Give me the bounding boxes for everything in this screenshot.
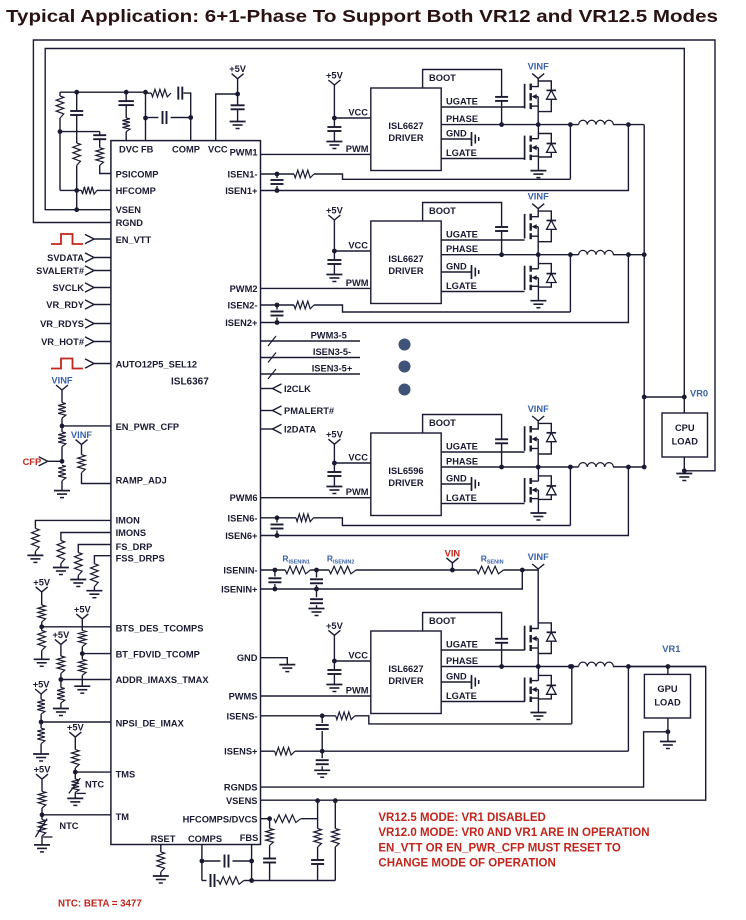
node BTS_DES_TCOMPS	[39, 624, 44, 629]
body diode lower phase 2	[538, 476, 551, 486]
ground EN_PWR_CFP divider	[54, 490, 70, 492]
PWM wire to driver U4	[261, 695, 371, 697]
ground BT divider	[74, 685, 90, 687]
svg-text:VINF: VINF	[528, 552, 549, 562]
CPU LOAD branch wire	[644, 397, 684, 413]
ISENIN- wire	[261, 569, 286, 571]
output inductor L2	[579, 250, 614, 254]
VSENS branch capacitor C10	[317, 847, 319, 860]
svg-text:RSET: RSET	[151, 834, 176, 844]
node EN_PWR_CFP	[60, 424, 65, 429]
resistor comp R2	[73, 143, 81, 165]
driver U1 VCC ground	[326, 141, 342, 143]
svg-text:+5V: +5V	[33, 680, 51, 690]
svg-text:CHANGE MODE OF OPERATION: CHANGE MODE OF OPERATION	[378, 858, 555, 870]
ISEN2- sense network	[261, 304, 278, 306]
ISEN1- sense network	[261, 173, 278, 175]
svg-text:VR12.0 MODE: VR0 AND VR1 ARE I: VR12.0 MODE: VR0 AND VR1 ARE IN OPERATIO…	[378, 827, 649, 839]
capacitor ISEN6	[276, 518, 278, 523]
+5V supply BTS divider	[36, 587, 42, 592]
capacitor ISEN1	[276, 174, 278, 178]
LGATE wire 3	[441, 503, 524, 505]
resistor BT divider lower	[81, 654, 83, 660]
svg-text:VSENS: VSENS	[226, 796, 258, 806]
VIN supply	[450, 568, 455, 573]
ground ISENIN	[309, 608, 325, 610]
svg-text:PHASE: PHASE	[446, 244, 478, 254]
svg-text:LOAD: LOAD	[654, 698, 681, 708]
output inductor L1	[579, 120, 614, 124]
bottom bus wire	[252, 880, 336, 882]
svg-text:VIN: VIN	[445, 548, 461, 558]
svg-text:LOAD: LOAD	[672, 437, 699, 447]
svg-text:ISEN1+: ISEN1+	[225, 186, 258, 196]
svg-text:VINF: VINF	[71, 430, 92, 440]
HFCOMP resistor R4	[60, 189, 82, 191]
svg-text:GND: GND	[446, 672, 467, 682]
resistor TMS upper	[74, 737, 76, 750]
svg-text:PWM2: PWM2	[230, 284, 258, 294]
capacitor ISENS b to ground	[321, 751, 323, 758]
svg-text:ISEN3-5-: ISEN3-5-	[313, 347, 351, 357]
+5V supply BT divider	[76, 614, 82, 619]
svg-text:FBS: FBS	[240, 833, 259, 843]
power MOSFET upper phase 0	[524, 84, 526, 109]
svg-text:ADDR_IMAXS_TMAX: ADDR_IMAXS_TMAX	[116, 675, 210, 685]
svg-text:LGATE: LGATE	[446, 281, 477, 291]
resistor divider EN_PWR_CFP lower	[58, 465, 66, 481]
ISENS+ wire	[261, 750, 275, 752]
phase 3 sense verticals	[569, 467, 571, 526]
svg-text:VINF: VINF	[528, 62, 549, 72]
VSENS branch resistor R11	[334, 801, 336, 829]
PWM wire to driver U3	[261, 497, 371, 499]
ISENS- to phase-4 vertical	[571, 667, 573, 724]
+5V supply ADDR divider	[55, 639, 61, 644]
body diode upper phase 0	[538, 81, 551, 90]
svg-text:VR12.5 MODE: VR1 DISABLED: VR12.5 MODE: VR1 DISABLED	[378, 812, 545, 824]
ground lower MOSFET phase 0	[530, 170, 546, 172]
svg-text:ISENIN-: ISENIN-	[223, 566, 257, 576]
capacitor ISENIN a	[274, 570, 276, 577]
driver U3 VCC wire	[334, 462, 370, 464]
capacitor ISENS a	[321, 716, 323, 723]
ISEN6- sense network	[261, 517, 278, 519]
VR1 output wire	[261, 667, 706, 801]
resistor TM upper	[41, 779, 43, 791]
VCC pin wire	[216, 94, 238, 141]
svg-text:+5V: +5V	[52, 630, 70, 640]
svg-text:SVDATA: SVDATA	[47, 253, 84, 263]
driver U3 VCC decoupling capacitor	[333, 463, 335, 472]
COMPS-FBS series resistor R7	[219, 877, 244, 885]
PHASE wire 3	[441, 466, 578, 468]
VINF supply for EN_PWR_CFP divider	[56, 385, 62, 390]
svg-text:PHASE: PHASE	[446, 457, 478, 467]
svg-text:ISL6627: ISL6627	[388, 254, 423, 264]
ground at FS_DRP	[70, 579, 86, 581]
VR0 rail	[643, 125, 645, 467]
UGATE wire 1	[441, 106, 524, 108]
GND pin driver U2	[441, 271, 471, 273]
svg-text:VCC: VCC	[348, 108, 368, 118]
RGNDS return wire	[261, 732, 668, 787]
svg-text:+5V: +5V	[74, 604, 92, 614]
svg-text:PWM6: PWM6	[230, 493, 258, 503]
svg-text:PMALERT#: PMALERT#	[284, 406, 335, 416]
BOOT net driver U2	[423, 203, 502, 227]
node BT_FDVID_TCOMP	[80, 651, 85, 656]
svg-text:+5V: +5V	[326, 621, 344, 631]
FB-COMP series capacitor C5	[177, 87, 179, 100]
ground NPSI divider	[33, 753, 49, 755]
pin I2CLK	[261, 388, 273, 390]
svg-text:FSS_DRPS: FSS_DRPS	[116, 554, 165, 564]
ground at FSS_DRPS	[86, 590, 102, 592]
svg-text:UGATE: UGATE	[446, 97, 478, 107]
bus ISEN3-5-	[261, 357, 361, 359]
svg-text:NPSI_DE_IMAX: NPSI_DE_IMAX	[116, 719, 185, 729]
svg-text:AUTO12P5_SEL12: AUTO12P5_SEL12	[116, 360, 197, 370]
svg-text:ISENS+: ISENS+	[224, 747, 258, 757]
driver U2 ISL6627 DRIVER box	[371, 221, 441, 304]
DVC series capacitor C3	[125, 92, 127, 101]
PSICOMP series capacitor C2	[99, 132, 101, 135]
body diode upper phase 2	[538, 423, 551, 432]
svg-text:PHASE: PHASE	[446, 114, 478, 124]
resistor RSET	[157, 852, 165, 872]
svg-text:VR_RDYS: VR_RDYS	[40, 319, 84, 329]
svg-text:BOOT: BOOT	[429, 418, 456, 428]
node TMS	[73, 770, 78, 775]
svg-text:NTC: NTC	[59, 821, 78, 831]
svg-text:BTS_DES_TCOMPS: BTS_DES_TCOMPS	[116, 624, 204, 634]
svg-text:DVC: DVC	[119, 145, 139, 155]
pin PMALERT#	[261, 410, 273, 412]
capacitor HFCOMPS C9	[269, 845, 271, 858]
CPU LOAD ground	[683, 457, 685, 474]
driver U1 VCC decoupling capacitor	[333, 118, 335, 127]
svg-text:CFP: CFP	[23, 457, 42, 467]
svg-text:HFCOMP: HFCOMP	[116, 186, 156, 196]
resistor at FS_DRP	[78, 545, 111, 553]
svg-text:LGATE: LGATE	[446, 148, 477, 158]
output inductor L3	[579, 463, 614, 467]
VINF supply at phase 0	[532, 74, 538, 79]
svg-text:DRIVER: DRIVER	[388, 478, 423, 488]
svg-text:ISEN3-5+: ISEN3-5+	[312, 364, 353, 374]
resistor RISENIN2	[329, 566, 356, 574]
pin I2DATA	[261, 428, 273, 430]
driver U2 VCC ground	[326, 274, 342, 276]
svg-text:PWM: PWM	[346, 686, 369, 696]
phase 1 sense verticals	[569, 125, 571, 180]
svg-text:FS_DRP: FS_DRP	[116, 542, 153, 552]
ground lower MOSFET phase 1	[530, 300, 546, 302]
svg-text:ISEN1-: ISEN1-	[228, 170, 258, 180]
NTC thermistor at TM	[41, 815, 43, 820]
svg-text:VCC: VCC	[208, 145, 228, 155]
RGND sense loop (outer frame)	[33, 40, 715, 471]
svg-text:DRIVER: DRIVER	[388, 676, 423, 686]
svg-text:+5V: +5V	[33, 577, 51, 587]
GND pin driver U3	[441, 483, 471, 485]
node ADDR_IMAXS_TMAX	[59, 677, 64, 682]
driver U3 ISL6596 DRIVER box	[371, 433, 441, 516]
svg-text:NTC: NTC	[85, 780, 104, 790]
ground TMS NTC	[67, 797, 83, 799]
driver U4 +5V supply	[328, 630, 334, 635]
PHASE wire 2	[441, 254, 578, 256]
svg-text:ISL6596: ISL6596	[388, 466, 423, 476]
svg-text:+5V: +5V	[326, 206, 344, 216]
PWM wire to driver U1	[261, 153, 371, 155]
resistor comp R1	[59, 92, 61, 96]
IC U5 ISL6367 box	[111, 141, 261, 845]
svg-text:VINF: VINF	[528, 192, 549, 202]
ground lower MOSFET phase 3	[530, 712, 546, 714]
svg-text:GND: GND	[446, 474, 467, 484]
resistor NPSI divider lower	[40, 722, 42, 728]
BOOT net driver U3	[423, 415, 502, 440]
bootstrap capacitor C1	[495, 96, 508, 98]
ISEN1+ wire	[261, 125, 629, 191]
svg-text:ISL6627: ISL6627	[388, 664, 423, 674]
svg-text:ISL6627: ISL6627	[388, 121, 423, 131]
resistor BTS divider upper	[41, 592, 43, 605]
power MOSFET lower phase 0	[524, 136, 526, 160]
svg-text:PWM1: PWM1	[230, 148, 258, 158]
ISENS+ to phase-4 output vertical	[627, 667, 629, 752]
svg-text:TM: TM	[116, 812, 130, 822]
UGATE wire 4	[441, 649, 524, 651]
svg-text:BOOT: BOOT	[429, 73, 456, 83]
ground at VCC cap	[230, 121, 246, 123]
bootstrap capacitor C4	[495, 638, 508, 640]
driver U4 VCC decoupling capacitor	[333, 661, 335, 670]
driver U4 VCC ground	[326, 684, 342, 686]
ISENS- sense network	[261, 715, 336, 717]
D4 GND pin stub and ground	[261, 658, 288, 665]
svg-text:EN_VTT: EN_VTT	[116, 235, 152, 245]
FB-COMP series resistor R6	[151, 89, 171, 97]
svg-text:GPU: GPU	[657, 684, 677, 694]
ground ISENS	[314, 769, 330, 771]
VSENS branch resistor R10	[317, 801, 319, 829]
body diode upper phase 3	[538, 623, 551, 632]
svg-text:ISEN6-: ISEN6-	[228, 513, 258, 523]
GND pin driver U1	[441, 138, 471, 140]
svg-text:EN_VTT OR EN_PWR_CFP MUST RESE: EN_VTT OR EN_PWR_CFP MUST RESET TO	[378, 842, 620, 854]
+5V supply NPSI divider	[35, 689, 41, 694]
PHASE wire 4	[441, 666, 578, 668]
svg-text:BOOT: BOOT	[429, 616, 456, 626]
svg-text:SVALERT#: SVALERT#	[36, 266, 85, 276]
svg-text:GND: GND	[446, 262, 467, 272]
body diode lower phase 1	[538, 264, 551, 274]
BOOT net driver U4	[423, 613, 502, 639]
svg-text:DRIVER: DRIVER	[388, 266, 423, 276]
CPU LOAD box	[662, 413, 708, 457]
svg-text:PWM: PWM	[346, 487, 369, 497]
svg-text:VR_HOT#: VR_HOT#	[41, 337, 85, 347]
ground at IMON	[27, 554, 43, 556]
body diode upper phase 1	[538, 211, 551, 220]
resistor BTS divider lower	[41, 627, 43, 631]
PSICOMP series resistor R3	[96, 148, 104, 166]
capacitor comp C1	[76, 92, 78, 111]
svg-text:+5V: +5V	[326, 71, 344, 81]
HFCOMPS network	[261, 818, 270, 820]
resistor HFCOMPS horizontal R8	[274, 815, 301, 823]
svg-text:SVCLK: SVCLK	[52, 283, 84, 293]
capacitor ISEN2	[276, 305, 278, 310]
bootstrap capacitor C3	[495, 438, 508, 440]
svg-text:VINF: VINF	[51, 376, 72, 386]
svg-text:BT_FDVID_TCOMP: BT_FDVID_TCOMP	[116, 650, 200, 660]
svg-text:ISL6367: ISL6367	[171, 377, 209, 388]
ground lower MOSFET phase 2	[530, 512, 546, 514]
power MOSFET upper phase 2	[524, 426, 526, 451]
LGATE wire 1	[441, 158, 524, 160]
resistor ADDR divider lower	[60, 680, 62, 688]
ISEN2+ wire	[261, 255, 629, 323]
resistor RISENIN1	[285, 566, 310, 574]
ground at IMONS	[53, 567, 69, 569]
svg-text:LGATE: LGATE	[446, 493, 477, 503]
NTC thermistor at TMS	[74, 772, 76, 779]
VCC decoupling capacitor C6	[237, 94, 239, 105]
svg-text:RGNDS: RGNDS	[224, 783, 258, 793]
ISENIN+ wire	[261, 570, 523, 589]
driver U3 VCC ground	[326, 486, 342, 488]
driver U1 +5V supply	[328, 80, 334, 85]
svg-text:VCC: VCC	[348, 651, 368, 661]
svg-text:UGATE: UGATE	[446, 230, 478, 240]
svg-text:+5V: +5V	[326, 430, 344, 440]
svg-text:GND: GND	[237, 653, 258, 663]
capacitor ISENIN c to ground	[316, 589, 318, 597]
svg-text:COMP: COMP	[172, 145, 200, 155]
svg-text:VR1: VR1	[662, 644, 680, 654]
resistor at IMONS	[61, 533, 111, 541]
output inductor L4	[579, 662, 614, 666]
driver U4 ISL6627 DRIVER box	[371, 631, 441, 714]
+5V supply TM	[36, 774, 42, 779]
resistor HFCOMPS vertical R9	[269, 819, 271, 829]
svg-text:COMPS: COMPS	[188, 834, 222, 844]
resistor NPSI divider upper	[40, 694, 42, 699]
+5V supply at VCC	[232, 74, 238, 79]
VINF supply at phase 2	[532, 416, 538, 421]
FB pin wire	[145, 92, 147, 140]
svg-text:VCC: VCC	[348, 453, 368, 463]
svg-text:PSICOMP: PSICOMP	[116, 170, 159, 180]
COMPS-FBS capacitor C7	[202, 860, 221, 862]
svg-text:CPU: CPU	[675, 423, 695, 433]
resistor at IMON	[35, 520, 111, 528]
COMPS-FBS series capacitor C8	[210, 874, 212, 887]
driver U4 VCC wire	[334, 660, 370, 662]
svg-text:UGATE: UGATE	[446, 640, 478, 650]
resistor divider EN_PWR_CFP upper	[61, 390, 63, 403]
power MOSFET upper phase 1	[524, 214, 526, 239]
capacitor ISENIN b	[316, 570, 318, 578]
resistor RSENIN	[477, 566, 504, 574]
LGATE wire 2	[441, 291, 524, 293]
driver U2 VCC decoupling capacitor	[333, 251, 335, 260]
svg-text:RAMP_ADJ: RAMP_ADJ	[116, 476, 167, 486]
svg-text:FB: FB	[141, 145, 154, 155]
svg-text:RGND: RGND	[116, 218, 144, 228]
driver U3 +5V supply	[328, 439, 334, 444]
GPU LOAD ground	[667, 718, 669, 742]
driver U1 ISL6627 DRIVER box	[371, 88, 441, 171]
FB-COMP capacitor C4	[146, 117, 159, 119]
svg-text:IMONS: IMONS	[116, 528, 146, 538]
driver U2 +5V supply	[328, 215, 334, 220]
svg-text:ISEN6+: ISEN6+	[225, 531, 258, 541]
DVC series resistor R5	[122, 118, 130, 132]
LGATE wire 4	[441, 701, 524, 703]
ground ADDR divider	[53, 708, 69, 710]
ground RSET	[153, 875, 169, 877]
driver U2 VCC wire	[334, 250, 370, 252]
svg-text:TMS: TMS	[116, 770, 136, 780]
GND pin driver U4	[441, 681, 471, 683]
svg-text:I2CLK: I2CLK	[284, 384, 311, 394]
resistor ADDR divider upper	[60, 644, 62, 656]
svg-text:LGATE: LGATE	[446, 691, 477, 701]
+5V supply TMS	[69, 732, 75, 737]
driver U1 VCC wire	[334, 117, 370, 119]
compensation rail	[60, 91, 146, 93]
bus PWM3-5	[261, 340, 361, 342]
svg-text:NTC: BETA = 3477: NTC: BETA = 3477	[58, 899, 142, 910]
svg-text:+5V: +5V	[34, 765, 52, 775]
svg-text:+5V: +5V	[229, 64, 247, 74]
svg-text:VSEN: VSEN	[116, 205, 142, 215]
ellipsis dots for phases 3-5	[399, 339, 411, 351]
BOOT net driver U1	[423, 70, 502, 97]
svg-text:DRIVER: DRIVER	[388, 133, 423, 143]
UGATE wire 3	[441, 451, 524, 453]
svg-text:EN_PWR_CFP: EN_PWR_CFP	[116, 422, 180, 432]
phase 2 sense verticals	[569, 255, 571, 312]
svg-text:VR0: VR0	[690, 389, 708, 399]
VINF supply for RAMP_ADJ	[76, 440, 82, 445]
svg-text:Typical Application: 6+1-Phase: Typical Application: 6+1-Phase To Suppor…	[6, 6, 718, 26]
VSEN sense loop (inner frame)	[45, 49, 684, 398]
body diode lower phase 3	[538, 675, 551, 685]
body diode lower phase 0	[538, 134, 551, 144]
power MOSFET upper phase 3	[524, 626, 526, 651]
svg-text:I2DATA: I2DATA	[284, 425, 316, 435]
ground BTS divider	[34, 658, 50, 660]
svg-text:ISENS-: ISENS-	[227, 711, 258, 721]
svg-text:+5V: +5V	[67, 723, 85, 733]
node comp A	[58, 129, 63, 134]
svg-text:ISEN2+: ISEN2+	[225, 318, 258, 328]
svg-text:ISEN2-: ISEN2-	[228, 301, 258, 311]
resistor RAMP_ADJ	[81, 445, 83, 455]
UGATE wire 2	[441, 239, 524, 241]
svg-text:PHASE: PHASE	[446, 656, 478, 666]
PWM wire to driver U2	[261, 287, 371, 289]
node NPSI_DE_IMAX	[39, 720, 44, 725]
svg-text:PWM: PWM	[346, 144, 369, 154]
svg-text:HFCOMPS/DVCS: HFCOMPS/DVCS	[183, 815, 258, 825]
